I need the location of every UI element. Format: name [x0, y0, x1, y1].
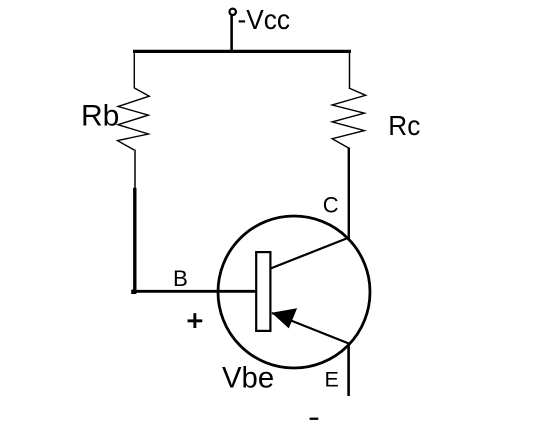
svg-text:C: C	[323, 193, 339, 218]
svg-text:-Vcc: -Vcc	[238, 4, 291, 35]
svg-text:E: E	[325, 368, 339, 392]
svg-text:Vbe: Vbe	[222, 361, 274, 394]
svg-text:Rb: Rb	[81, 100, 119, 133]
svg-text:Rc: Rc	[388, 110, 420, 141]
svg-text:B: B	[173, 266, 188, 291]
